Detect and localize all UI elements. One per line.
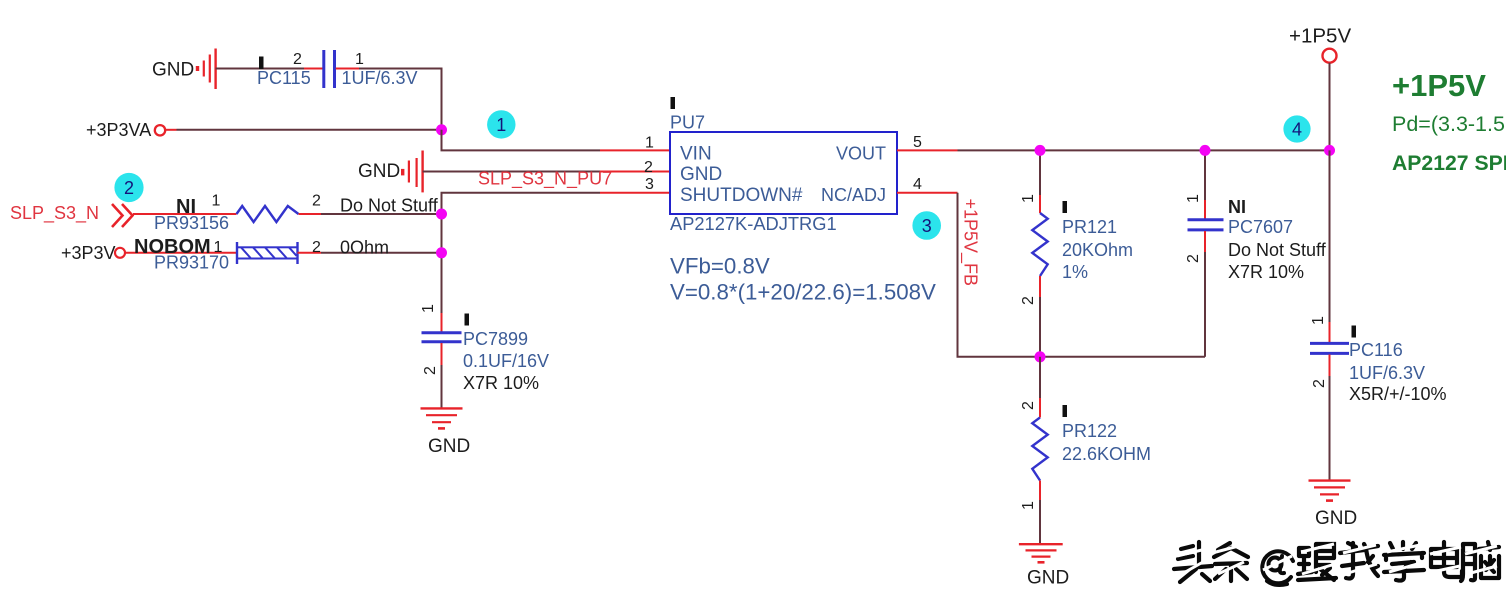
pin stub PC7899 pin2 bbox=[441, 343, 443, 365]
svg-text:SLP_S3_N_PU7: SLP_S3_N_PU7 bbox=[478, 169, 612, 190]
svg-text:SHUTDOWN#: SHUTDOWN# bbox=[680, 185, 803, 206]
svg-text:SLP_S3_N: SLP_S3_N bbox=[10, 203, 99, 224]
pin stub PC116 pin2 bbox=[1329, 355, 1331, 377]
pin stub +3P3VA bbox=[165, 129, 176, 131]
svg-text:Do Not Stuff: Do Not Stuff bbox=[1228, 240, 1327, 260]
type marker I of PC116 bbox=[1352, 326, 1357, 338]
svg-text:1%: 1% bbox=[1062, 262, 1088, 282]
svg-text:Do Not Stuff: Do Not Stuff bbox=[340, 196, 439, 216]
pin stub PU7 pin4 NC/ADJ bbox=[897, 192, 958, 194]
svg-text:2: 2 bbox=[1020, 296, 1037, 305]
wire +3P3V to resistor (red) bbox=[125, 252, 237, 254]
wire GND to PC115 pin2 bbox=[216, 68, 304, 70]
wire SHUTDOWN net vertical bbox=[442, 193, 601, 321]
junction +1P5V bbox=[1324, 145, 1335, 156]
svg-text:1: 1 bbox=[355, 51, 364, 68]
junction at VIN net bbox=[436, 124, 447, 135]
type marker I of PC115 bbox=[259, 57, 264, 70]
svg-text:AP2127 SPE: AP2127 SPE bbox=[1392, 152, 1506, 175]
pin stub PC116 pin1 bbox=[1329, 322, 1331, 342]
ground symbol (left-pointing) at PC115 bbox=[198, 49, 216, 90]
svg-text:PC116: PC116 bbox=[1349, 340, 1403, 360]
ground symbol (left-pointing) at PU7 pin2 bbox=[403, 151, 423, 193]
watermark char 电 bbox=[1431, 542, 1462, 577]
svg-text:GND: GND bbox=[1315, 508, 1357, 529]
callout circle 4 bbox=[1283, 115, 1310, 142]
wire PR93170 to junction bbox=[321, 252, 442, 254]
svg-text:1: 1 bbox=[496, 115, 506, 135]
watermark char 头 bbox=[1174, 542, 1212, 582]
svg-text:4: 4 bbox=[913, 176, 922, 193]
wire PC7607 branch top bbox=[1204, 150, 1206, 200]
svg-text:GND: GND bbox=[152, 60, 194, 81]
svg-text:2: 2 bbox=[422, 366, 439, 375]
pin stub PR93170 pin2 bbox=[298, 252, 322, 254]
svg-text:PR93170: PR93170 bbox=[154, 253, 229, 273]
svg-text:GND: GND bbox=[680, 164, 722, 185]
svg-text:PR93156: PR93156 bbox=[154, 213, 229, 233]
pin stub PU7 pin2 GND bbox=[600, 171, 670, 173]
callout circle 1 bbox=[487, 110, 515, 138]
callout circle 3 bbox=[912, 211, 941, 240]
pin stub PC7607 pin1 bbox=[1204, 200, 1206, 219]
svg-text:PU7: PU7 bbox=[670, 113, 705, 133]
svg-text:X7R 10%: X7R 10% bbox=[463, 373, 539, 393]
pin stub PR122 pin2 bbox=[1039, 398, 1041, 418]
wire +3P3VA to junction bbox=[177, 129, 442, 131]
watermark white cut slashes bbox=[1177, 544, 1497, 575]
junction SLP row bbox=[436, 209, 447, 220]
svg-text:2: 2 bbox=[1020, 401, 1037, 410]
svg-text:PC115: PC115 bbox=[257, 68, 311, 88]
resistor PR93156 zigzag bbox=[237, 206, 299, 222]
svg-text:1: 1 bbox=[420, 304, 437, 313]
svg-text:3: 3 bbox=[645, 176, 654, 193]
svg-text:3: 3 bbox=[922, 216, 932, 236]
watermark 头条 @跟我学电脑 bbox=[1174, 542, 1499, 585]
terminal circle +3P3V bbox=[115, 248, 125, 258]
ground symbol below PC7899 bbox=[421, 408, 463, 428]
svg-text:2: 2 bbox=[1185, 254, 1202, 263]
junction VOUT at PC7607 bbox=[1200, 145, 1211, 156]
wire SLP_S3_N to resistor (red) bbox=[133, 213, 237, 215]
resistor PR93170 hatched box (0 Ohm, NOBOM) bbox=[237, 242, 298, 264]
svg-text:X7R 10%: X7R 10% bbox=[1228, 262, 1304, 282]
type marker I of PR122 bbox=[1063, 405, 1068, 417]
watermark char 跟 bbox=[1298, 544, 1336, 580]
pin stub PU7 pin5 VOUT bbox=[897, 149, 958, 151]
wire PC115 pin1 to corner bbox=[359, 69, 442, 131]
svg-text:2: 2 bbox=[644, 159, 653, 176]
svg-text:22.6KOHM: 22.6KOHM bbox=[1062, 444, 1151, 464]
resistor PR122 zigzag bbox=[1032, 418, 1047, 481]
wire PC116 to GND bbox=[1329, 376, 1331, 480]
pin stub PR121 pin1 bbox=[1039, 195, 1041, 213]
svg-text:GND: GND bbox=[1027, 568, 1069, 589]
svg-text:0Ohm: 0Ohm bbox=[340, 238, 389, 258]
svg-text:2: 2 bbox=[312, 193, 321, 210]
svg-text:1: 1 bbox=[1020, 194, 1037, 203]
svg-text:2: 2 bbox=[1311, 379, 1328, 388]
input chevron SLP_S3_N bbox=[112, 204, 133, 227]
terminal circle +3P3VA bbox=[155, 125, 165, 135]
callout circle 2 bbox=[114, 173, 143, 202]
ground symbol below PC116 bbox=[1309, 481, 1351, 501]
capacitor PC116 plates bbox=[1310, 342, 1349, 345]
watermark char @ bbox=[1262, 551, 1293, 585]
wire PR93156 to junction bbox=[321, 213, 442, 215]
junction bottom at PR121 bbox=[1035, 351, 1046, 362]
capacitor PC115 plates bbox=[322, 50, 325, 88]
type marker I of PR121 bbox=[1063, 201, 1068, 213]
pin stub PR121 pin2 bbox=[1039, 276, 1041, 297]
type marker I of PU7 bbox=[671, 97, 676, 109]
wire +1P5V_FB vertical bbox=[958, 193, 1206, 357]
svg-text:+1P5V: +1P5V bbox=[1392, 68, 1486, 103]
wire PC7607 to bottom bbox=[1204, 252, 1206, 357]
resistor PR121 zigzag bbox=[1032, 213, 1047, 276]
svg-text:5: 5 bbox=[913, 134, 922, 151]
wire junction down to VIN row bbox=[442, 130, 601, 151]
svg-text:2: 2 bbox=[293, 51, 302, 68]
watermark char 条 bbox=[1214, 543, 1248, 581]
svg-text:X5R/+/-10%: X5R/+/-10% bbox=[1349, 384, 1447, 404]
pin stub PC7607 pin2 bbox=[1204, 231, 1206, 252]
svg-text:2: 2 bbox=[124, 178, 134, 198]
svg-text:1: 1 bbox=[1185, 194, 1202, 203]
wire PR121 to bottom bbox=[1039, 297, 1041, 357]
wire GND to PU7 pin2 bbox=[423, 171, 600, 173]
svg-text:VFb=0.8V: VFb=0.8V bbox=[670, 254, 770, 279]
svg-text:2: 2 bbox=[312, 239, 321, 256]
svg-text:GND: GND bbox=[358, 161, 400, 182]
pin stub PR122 pin1 bbox=[1039, 481, 1041, 501]
pin stub PR93156 pin2 bbox=[299, 213, 322, 215]
svg-text:4: 4 bbox=[1292, 119, 1302, 139]
wire PR122 branch bbox=[1039, 357, 1041, 398]
junction 0Ohm row bbox=[436, 247, 447, 258]
svg-text:PC7607: PC7607 bbox=[1228, 217, 1293, 237]
svg-text:20KOhm: 20KOhm bbox=[1062, 240, 1133, 260]
pin stub PC7899 pin1 bbox=[441, 313, 443, 332]
pin stub PU7 pin1 VIN bbox=[600, 149, 670, 151]
wire VOUT net bbox=[958, 149, 1330, 151]
ground symbol below PR122 bbox=[1019, 544, 1063, 562]
watermark char 脑 bbox=[1461, 542, 1499, 581]
svg-text:NC/ADJ: NC/ADJ bbox=[821, 185, 886, 205]
svg-text:1UF/6.3V: 1UF/6.3V bbox=[342, 68, 418, 88]
svg-text:VIN: VIN bbox=[680, 144, 712, 165]
svg-text:PR121: PR121 bbox=[1062, 217, 1117, 237]
capacitor PC7607 plates bbox=[1188, 218, 1224, 221]
wire PC7899 to GND bbox=[441, 365, 443, 408]
svg-text:NI: NI bbox=[1228, 197, 1246, 217]
svg-text:VOUT: VOUT bbox=[836, 144, 886, 164]
watermark char 我 bbox=[1340, 543, 1378, 579]
svg-text:+3P3VA: +3P3VA bbox=[86, 120, 151, 140]
svg-text:1: 1 bbox=[645, 135, 654, 152]
svg-text:V=0.8*(1+20/22.6)=1.508V: V=0.8*(1+20/22.6)=1.508V bbox=[670, 280, 936, 305]
watermark char 学 bbox=[1384, 542, 1424, 581]
svg-text:+3P3V: +3P3V bbox=[61, 243, 116, 263]
svg-text:1UF/6.3V: 1UF/6.3V bbox=[1349, 363, 1425, 383]
svg-text:0.1UF/16V: 0.1UF/16V bbox=[463, 351, 549, 371]
svg-text:1: 1 bbox=[1310, 316, 1327, 325]
svg-text:1: 1 bbox=[1020, 501, 1037, 510]
pin stub PU7 pin3 bbox=[600, 192, 670, 194]
svg-text:GND: GND bbox=[428, 436, 470, 457]
svg-text:AP2127K-ADJTRG1: AP2127K-ADJTRG1 bbox=[670, 213, 837, 234]
wire +1P5V down bbox=[1329, 63, 1331, 150]
capacitor PC7899 plates bbox=[422, 331, 462, 334]
wire PR121 branch top bbox=[1039, 150, 1041, 195]
svg-text:+1P5V: +1P5V bbox=[1289, 25, 1351, 48]
pin stub PC115 pin1 bbox=[336, 68, 359, 70]
svg-text:PR122: PR122 bbox=[1062, 421, 1117, 441]
type marker I of PC7899 bbox=[465, 314, 470, 326]
svg-text:+1P5V_FB: +1P5V_FB bbox=[960, 199, 981, 287]
svg-text:PC7899: PC7899 bbox=[463, 329, 528, 349]
terminal circle +1P5V bbox=[1323, 49, 1337, 63]
svg-text:Pd=(3.3-1.5: Pd=(3.3-1.5 bbox=[1392, 112, 1505, 136]
wire PR122 to GND bbox=[1039, 500, 1041, 544]
pin stub PC115 pin2 bbox=[304, 68, 323, 70]
wire +1P5V to PC116 bbox=[1329, 150, 1331, 322]
IC PU7 box bbox=[670, 132, 897, 214]
svg-text:1: 1 bbox=[212, 193, 221, 210]
junction VOUT at PR121 bbox=[1035, 145, 1046, 156]
